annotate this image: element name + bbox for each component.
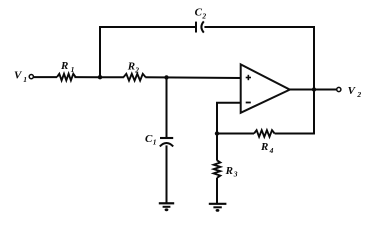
node V2 output terminal xyxy=(337,87,341,91)
svg-text:1: 1 xyxy=(71,65,75,74)
label V2 xyxy=(348,85,362,99)
node V1 input terminal xyxy=(29,75,33,79)
resistor R3 xyxy=(214,134,221,204)
capacitor C2 xyxy=(196,21,204,32)
wire R2 to op-amp noninverting input xyxy=(145,76,241,79)
svg-text:R: R xyxy=(260,141,268,153)
capacitor C1 xyxy=(160,138,173,146)
label R4 xyxy=(260,141,274,155)
wire R4 to right rail xyxy=(275,133,315,135)
wire node C to R4 xyxy=(217,133,254,135)
wire op-amp inverting input xyxy=(217,103,241,135)
resistor R4 xyxy=(254,130,275,137)
wire op-amp output to V2 xyxy=(290,89,337,91)
label C1 xyxy=(145,133,157,147)
svg-text:3: 3 xyxy=(233,169,238,178)
wire top rail left of C2 xyxy=(99,26,196,28)
resistor R1 xyxy=(57,74,76,81)
label R1 xyxy=(60,60,74,74)
svg-text:2: 2 xyxy=(356,90,361,99)
node C junction dot xyxy=(215,131,219,135)
wire right rail down to R4 xyxy=(313,26,315,134)
node A junction dot xyxy=(98,75,102,79)
svg-text:1: 1 xyxy=(153,137,157,146)
node B junction dot xyxy=(164,75,168,79)
wire top rail right of C2 xyxy=(204,26,315,28)
label R2 xyxy=(127,60,139,74)
svg-text:R: R xyxy=(225,165,233,177)
label V1 xyxy=(14,70,27,85)
wire R1 to node A xyxy=(74,76,100,78)
wire C1 to ground xyxy=(166,145,168,203)
resistor R2 xyxy=(124,74,146,81)
op-amp U1 xyxy=(241,64,290,112)
wire node A up to top rail xyxy=(99,26,101,77)
svg-text:R: R xyxy=(60,60,68,72)
wire node A to R2 xyxy=(100,76,124,78)
svg-text:R: R xyxy=(127,60,135,72)
ground under C1 xyxy=(159,203,174,211)
svg-text:2: 2 xyxy=(201,11,206,20)
wire V1 to R1 xyxy=(34,76,57,78)
label R3 xyxy=(225,165,238,179)
label C2 xyxy=(195,7,207,21)
svg-text:C: C xyxy=(145,133,153,145)
node D junction dot xyxy=(312,87,316,91)
svg-text:1: 1 xyxy=(23,75,27,84)
wire node B down to C1 xyxy=(166,77,168,138)
ground under R3 xyxy=(209,204,227,212)
svg-text:4: 4 xyxy=(269,146,274,155)
svg-text:2: 2 xyxy=(134,65,139,74)
svg-text:C: C xyxy=(195,7,203,19)
